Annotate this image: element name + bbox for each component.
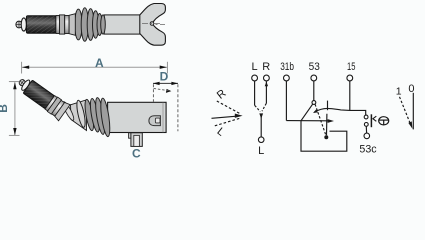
svg-text:R: R: [215, 87, 229, 101]
svg-text:B: B: [0, 104, 10, 113]
svg-text:53: 53: [309, 61, 320, 73]
svg-text:A: A: [95, 56, 104, 70]
svg-text:C: C: [132, 146, 141, 160]
svg-text:L: L: [252, 61, 258, 73]
svg-text:1: 1: [396, 86, 402, 98]
svg-text:R: R: [262, 61, 270, 73]
svg-text:53c: 53c: [359, 143, 377, 155]
svg-text:L: L: [258, 145, 264, 157]
svg-text:L: L: [215, 126, 227, 139]
svg-text:0: 0: [408, 83, 414, 95]
svg-text:31b: 31b: [280, 61, 294, 73]
svg-text:15: 15: [347, 61, 355, 73]
svg-text:D: D: [160, 70, 169, 84]
